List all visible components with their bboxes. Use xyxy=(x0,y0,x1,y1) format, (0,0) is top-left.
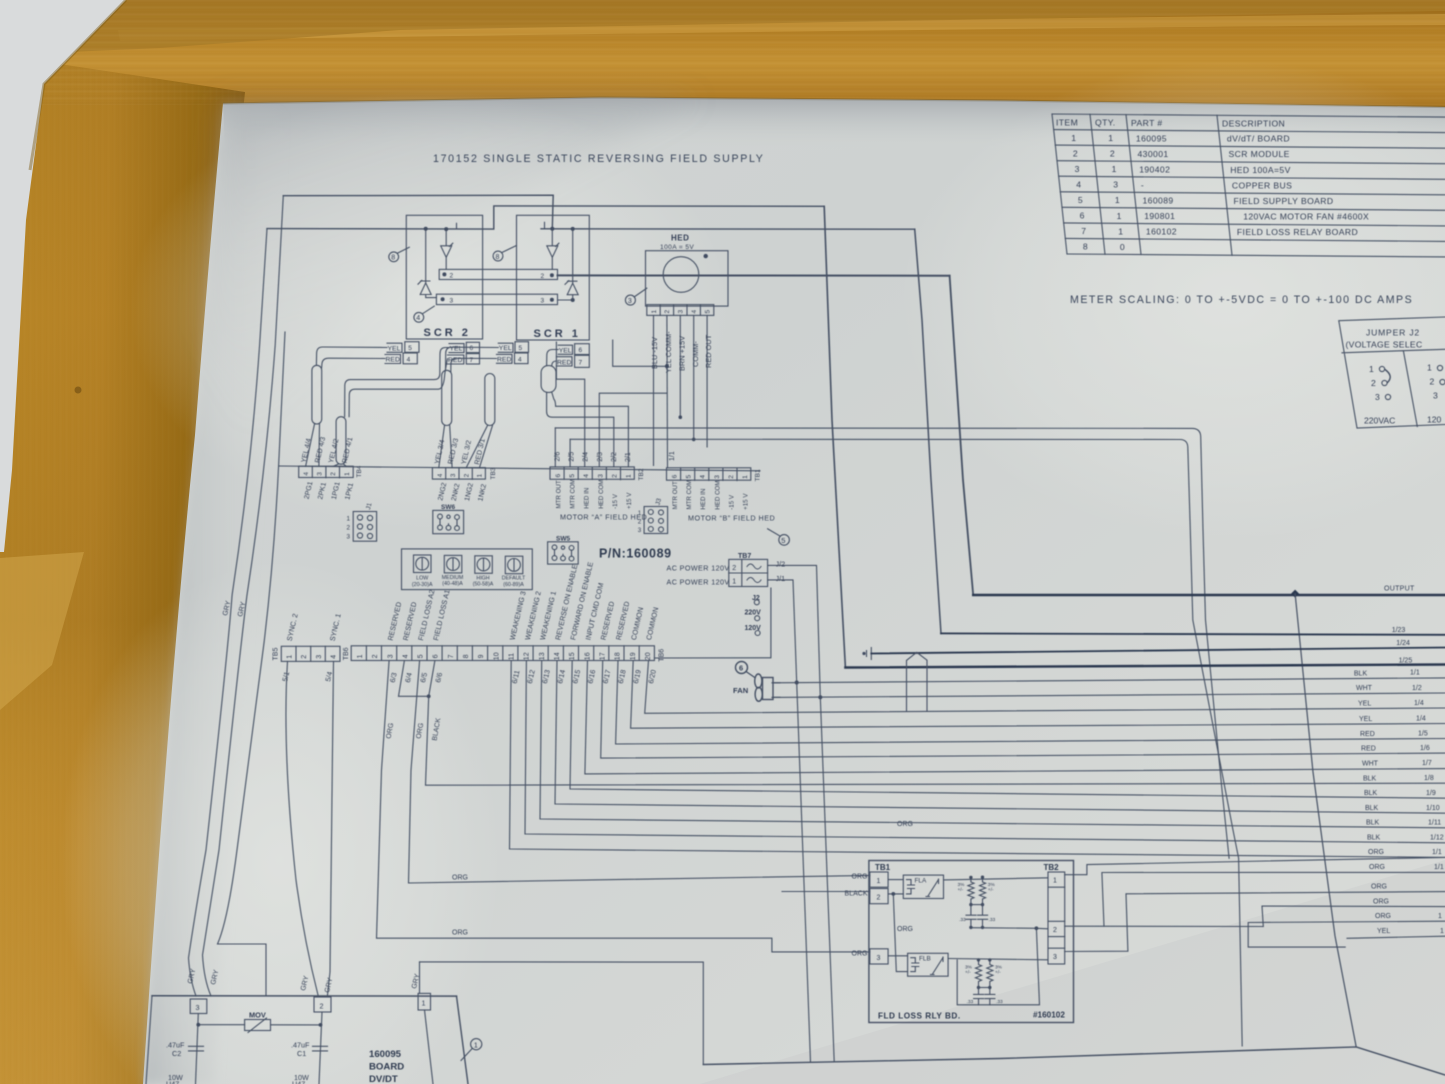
svg-text:5: 5 xyxy=(408,345,412,352)
SCR module Q2 box xyxy=(406,215,482,339)
svg-text:3: 3 xyxy=(628,298,632,305)
labels below TB2 xyxy=(556,479,634,509)
svg-text:RED: RED xyxy=(497,356,511,363)
wire FLB to FLD TB2-3 xyxy=(948,959,1048,960)
svg-text:FIELD LOSS RELAY BOARD: FIELD LOSS RELAY BOARD xyxy=(1237,227,1358,237)
svg-text:6: 6 xyxy=(1080,211,1085,221)
svg-text:ORG: ORG xyxy=(1368,849,1384,856)
white sheet behind wood at far left xyxy=(0,0,126,552)
labels HED leads xyxy=(650,331,713,373)
rail L3 via terminal line corner xyxy=(218,332,286,996)
svg-text:120VAC MOTOR FAN #4600X: 120VAC MOTOR FAN #4600X xyxy=(1243,211,1369,221)
svg-text:ORG: ORG xyxy=(1375,913,1391,920)
wire bottom rail 2 xyxy=(703,1047,1445,1075)
copper bus bar 3 xyxy=(436,294,557,304)
terminal strip TB1 xyxy=(667,468,751,480)
svg-text:1/1: 1/1 xyxy=(1434,864,1444,871)
svg-text:DV/DT: DV/DT xyxy=(369,1074,398,1084)
svg-text:2: 2 xyxy=(301,655,308,659)
svg-text:BLU -15V: BLU -15V xyxy=(650,337,659,369)
svg-text:TB6: TB6 xyxy=(659,649,666,662)
svg-text:11: 11 xyxy=(509,653,516,660)
node 1-24 left dot xyxy=(862,652,865,655)
wire bus vertical to OUTPUT xyxy=(950,276,974,595)
FLD TB1 terminal 1 xyxy=(870,872,888,887)
svg-text:TB6: TB6 xyxy=(343,647,350,660)
svg-text:RED: RED xyxy=(1361,745,1376,752)
svg-text:190402: 190402 xyxy=(1139,165,1170,175)
svg-text:WHT: WHT xyxy=(1362,760,1379,767)
SCR1 gate terminal RED 7 xyxy=(575,355,590,367)
svg-text:2: 2 xyxy=(1430,377,1435,387)
svg-text:COMM-: COMM- xyxy=(691,341,700,367)
svg-text:BLK: BLK xyxy=(1367,835,1381,842)
wire bottom rail 1 xyxy=(152,995,457,997)
svg-text:1/12: 1/12 xyxy=(1430,834,1444,841)
svg-text:8: 8 xyxy=(1083,242,1088,252)
wire row YEL 936 xyxy=(1347,936,1445,938)
node J/1 dot xyxy=(795,681,799,685)
svg-text:8: 8 xyxy=(496,254,500,261)
capacitor C1 xyxy=(313,1046,328,1051)
ref circled 6 xyxy=(736,662,748,674)
svg-text:J/2: J/2 xyxy=(776,560,786,569)
svg-text:3: 3 xyxy=(678,310,685,314)
svg-text:MOV: MOV xyxy=(249,1011,266,1020)
svg-text:3: 3 xyxy=(877,955,881,962)
svg-text:BLK: BLK xyxy=(1365,805,1379,812)
node HED dot xyxy=(704,254,708,258)
twisted pair tent xyxy=(907,652,928,711)
svg-text:AC POWER 120V: AC POWER 120V xyxy=(667,578,730,587)
wire HA corner into TB2-6 xyxy=(554,428,556,467)
wire J/2 to right xyxy=(768,565,821,697)
wire 6/13 to row xyxy=(540,661,1445,828)
svg-text:1/23: 1/23 xyxy=(1392,627,1406,634)
svg-text:1: 1 xyxy=(1115,195,1120,205)
svg-text:.33: .33 xyxy=(967,999,974,1005)
svg-text:13: 13 xyxy=(539,652,546,660)
wire TB1-2 to FLA and FLB xyxy=(888,894,908,972)
shadow cast by wood edge on paper top xyxy=(223,98,1445,153)
jumper circles xyxy=(1379,366,1384,371)
labels below TB4 xyxy=(304,481,355,501)
svg-text:1: 1 xyxy=(1071,133,1076,143)
svg-text:1: 1 xyxy=(626,474,633,478)
node TB1-2 dot xyxy=(891,892,895,896)
svg-text:QTY.: QTY. xyxy=(1095,118,1116,128)
wire hose B to TB4 xyxy=(333,464,346,466)
svg-text:1/6: 1/6 xyxy=(1420,745,1430,752)
wire SCR2 right gates to low horizontals xyxy=(345,348,449,417)
svg-text:+/-: +/- xyxy=(958,887,964,893)
svg-text:MOTOR “A” FIELD HED: MOTOR “A” FIELD HED xyxy=(560,513,647,522)
SCR2 gate terminal RED 7 xyxy=(466,354,479,364)
svg-text:5: 5 xyxy=(569,474,576,478)
hose C sleeve xyxy=(442,370,452,425)
svg-text:SW6: SW6 xyxy=(441,504,455,511)
node SCR1 dot2 xyxy=(571,227,575,231)
svg-text:JUMPER J2: JUMPER J2 xyxy=(1366,328,1420,338)
svg-text:160102: 160102 xyxy=(1146,227,1177,237)
wire SCR1 right gates into hose E xyxy=(547,350,559,366)
svg-text:SCR MODULE: SCR MODULE xyxy=(1229,149,1290,159)
svg-text:2: 2 xyxy=(372,654,379,658)
svg-text:15: 15 xyxy=(569,652,576,660)
left wood region xyxy=(0,55,245,1084)
wire 1-24 xyxy=(871,648,1445,654)
hose E sleeve xyxy=(541,366,556,393)
svg-text:1/8: 1/8 xyxy=(1424,775,1434,782)
terminal strip TB3 xyxy=(432,468,485,480)
svg-text:1/5: 1/5 xyxy=(1418,730,1428,737)
HED circle xyxy=(663,257,699,293)
svg-text:+/-: +/- xyxy=(988,887,994,893)
svg-text:3: 3 xyxy=(1433,391,1438,401)
svg-text:17: 17 xyxy=(599,652,606,660)
wire 6/4 jog to 6/6 xyxy=(399,661,429,697)
terminal strip TB5 xyxy=(281,646,340,661)
svg-text:3: 3 xyxy=(1075,164,1080,174)
svg-text:ORG: ORG xyxy=(852,951,868,958)
wire BLACK into TB1-2 xyxy=(782,891,870,893)
svg-text:3: 3 xyxy=(541,298,545,305)
svg-text:2: 2 xyxy=(1110,149,1115,159)
svg-text:5: 5 xyxy=(1078,195,1083,205)
svg-text:(60-89)A: (60-89)A xyxy=(503,582,524,588)
svg-text:160095: 160095 xyxy=(1136,133,1167,143)
wire cap rail to TB2-2 xyxy=(971,928,1048,929)
svg-text:FLD LOSS RLY BD.: FLD LOSS RLY BD. xyxy=(878,1012,961,1021)
svg-text:(50-58)A: (50-58)A xyxy=(473,582,494,588)
svg-text:ORG: ORG xyxy=(452,875,468,882)
capacitor CB1 xyxy=(974,988,984,1005)
node 6/4-6/6 dot xyxy=(427,694,431,698)
svg-text:4: 4 xyxy=(700,475,707,479)
wire box2 lead down xyxy=(319,1012,322,1084)
svg-text:3: 3 xyxy=(1113,180,1118,190)
svg-text:6: 6 xyxy=(739,664,743,673)
wire 6/6 BLACK to row 1-8 xyxy=(426,661,1445,786)
wire line HB xyxy=(570,439,1242,1046)
resistor RB1 xyxy=(976,960,982,988)
wire HED lead BRN xyxy=(679,315,681,417)
wire TB2-2 down to FLB rail xyxy=(957,928,1039,1005)
wire GRY riser into box1 xyxy=(419,962,421,994)
labels resistor caps xyxy=(958,882,1004,1005)
connector J1 xyxy=(353,512,376,542)
wire FLD TB2-1 to row 857 xyxy=(1065,857,1445,874)
svg-text:3: 3 xyxy=(638,527,642,534)
svg-text:14: 14 xyxy=(554,652,561,660)
svg-text:3: 3 xyxy=(450,297,454,304)
svg-text:RED: RED xyxy=(1360,731,1375,738)
wire row ORG 921 xyxy=(1248,921,1445,947)
wire W2 dot-row SCR2 xyxy=(267,206,824,229)
svg-text:+/-: +/- xyxy=(995,970,1001,976)
svg-text:+15 V: +15 V xyxy=(743,493,750,510)
svg-text:1/24: 1/24 xyxy=(1396,640,1410,647)
wire 6/20 to row xyxy=(645,661,1445,714)
terminal strip TB2 xyxy=(550,467,634,479)
bottom right subtle shading xyxy=(700,860,1445,1084)
terminal strip TB4 xyxy=(299,466,354,477)
svg-text:P/N:160089: P/N:160089 xyxy=(599,547,672,561)
wire main bus to HED xyxy=(558,274,950,276)
svg-text:BOARD: BOARD xyxy=(369,1062,404,1073)
svg-text:#160102: #160102 xyxy=(1033,1011,1065,1020)
svg-text:METER SCALING: 0 TO +-5VDC = 0: METER SCALING: 0 TO +-5VDC = 0 TO +-100 … xyxy=(1070,294,1413,306)
svg-text:1: 1 xyxy=(422,999,426,1008)
svg-text:8: 8 xyxy=(463,654,470,658)
svg-text:6: 6 xyxy=(579,347,583,354)
svg-text:6: 6 xyxy=(672,474,679,478)
wire J/1 to right xyxy=(768,580,797,683)
svg-text:YEL: YEL xyxy=(1359,716,1372,723)
relay FLB xyxy=(908,953,949,976)
SCR1 gate terminal RED 4 xyxy=(515,353,529,364)
svg-text:AC POWER 120V: AC POWER 120V xyxy=(667,564,730,573)
svg-text:MOTOR “B” FIELD HED: MOTOR “B” FIELD HED xyxy=(688,513,775,522)
wire TB1-3 to FLB xyxy=(888,955,908,957)
svg-text:2: 2 xyxy=(463,473,470,477)
svg-text:2: 2 xyxy=(732,565,736,572)
svg-text:10W: 10W xyxy=(168,1073,183,1082)
svg-text:1: 1 xyxy=(742,475,749,479)
svg-text:120V: 120V xyxy=(745,625,762,632)
svg-text:170152 SINGLE STATIC REVERS: 170152 SINGLE STATIC REVERSING FIELD SUP… xyxy=(433,153,765,165)
wire 6/15 to row xyxy=(570,661,1445,799)
node OUTPUT junction diamond xyxy=(1291,590,1299,598)
svg-text:.33: .33 xyxy=(959,917,966,923)
svg-text:220V: 220V xyxy=(745,610,762,617)
svg-text:1/10: 1/10 xyxy=(1426,805,1440,812)
svg-text:.33: .33 xyxy=(996,999,1003,1005)
svg-text:SCR 1: SCR 1 xyxy=(534,328,581,340)
wire hose C to TB3 xyxy=(439,426,452,468)
wire bus3 stub right xyxy=(558,299,574,301)
svg-text:MEDIUM: MEDIUM xyxy=(442,575,463,581)
svg-text:3: 3 xyxy=(1375,392,1380,402)
svg-text:LOW: LOW xyxy=(416,576,428,582)
svg-text:YEL: YEL xyxy=(388,346,401,353)
svg-text:PART #: PART # xyxy=(1131,118,1163,128)
wood notch highlight left xyxy=(0,552,84,710)
svg-text:1/11: 1/11 xyxy=(1428,819,1441,826)
svg-text:160089: 160089 xyxy=(1143,196,1174,206)
wire TB7 to TB6 strip xyxy=(654,588,771,658)
svg-text:12: 12 xyxy=(524,652,531,660)
svg-text:2: 2 xyxy=(1371,378,1376,388)
wire row 1-2 xyxy=(772,693,1445,697)
svg-text:0: 0 xyxy=(1120,242,1125,252)
svg-text:+/-: +/- xyxy=(965,970,971,976)
svg-text:YEL: YEL xyxy=(1377,928,1390,935)
wire 6/11 to row xyxy=(510,661,1445,858)
svg-text:FAN: FAN xyxy=(733,686,748,695)
svg-text:C2: C2 xyxy=(172,1049,181,1058)
wire HED lead YEL COMM to TB1-6 xyxy=(666,315,669,467)
FLD TB1 terminal 3 xyxy=(870,949,888,964)
svg-text:SCR 2: SCR 2 xyxy=(424,327,471,339)
svg-text:1/7: 1/7 xyxy=(1422,760,1432,767)
svg-text:ITEM: ITEM xyxy=(1056,117,1078,127)
svg-text:1: 1 xyxy=(1108,133,1113,143)
SCR1 gate terminal YEL 5 xyxy=(515,342,529,353)
svg-text:220VAC: 220VAC xyxy=(1364,416,1395,426)
svg-text:2: 2 xyxy=(611,474,618,478)
connector J3 xyxy=(644,507,668,534)
rotary switch panel xyxy=(402,549,533,590)
svg-text:TB4: TB4 xyxy=(356,465,363,477)
svg-text:1: 1 xyxy=(1118,226,1123,236)
svg-text:4: 4 xyxy=(691,310,698,314)
svg-text:MTR OUT: MTR OUT xyxy=(672,481,679,509)
left wood vertical shading overlay xyxy=(0,55,245,1084)
svg-text:6: 6 xyxy=(470,345,474,352)
svg-text:2: 2 xyxy=(728,475,735,479)
labels above TB4 xyxy=(301,436,355,464)
svg-text:2: 2 xyxy=(450,273,454,280)
svg-text:FIELD SUPPLY BOARD: FIELD SUPPLY BOARD xyxy=(1234,196,1334,206)
wire diamond down to rail1 xyxy=(1295,594,1356,1047)
svg-text:(VOLTAGE SELEC: (VOLTAGE SELEC xyxy=(1346,340,1423,350)
svg-text:7: 7 xyxy=(1081,226,1086,236)
resistor RA1 xyxy=(968,877,974,904)
fan motor M1 xyxy=(755,674,762,688)
svg-text:BLK: BLK xyxy=(1363,775,1377,782)
svg-text:1: 1 xyxy=(347,516,351,523)
corner shadow on paper xyxy=(203,98,700,421)
wire TB2-4 feed xyxy=(556,342,584,467)
hose B sleeve xyxy=(336,417,346,465)
svg-text:HED IN: HED IN xyxy=(584,488,591,509)
wire rail1 right end down xyxy=(457,996,469,1084)
diode SCR2 left xyxy=(418,229,436,298)
wire L-jog SCR1 bottom to YELCOMM xyxy=(613,340,667,366)
terminal line long xyxy=(279,466,760,471)
svg-text:430001: 430001 xyxy=(1138,149,1169,159)
node SCR1 pin1 tick xyxy=(544,222,546,229)
svg-text:1: 1 xyxy=(477,474,484,478)
SCR module Q1 box xyxy=(517,215,590,340)
svg-text:ORG: ORG xyxy=(1371,883,1387,890)
current sensor HED box xyxy=(646,251,729,306)
relay FLA xyxy=(903,875,943,898)
svg-text:RED: RED xyxy=(386,357,400,364)
node SCR2 pin1 tick xyxy=(456,223,458,229)
ref circled 4 xyxy=(414,312,424,322)
capacitor CA2 xyxy=(978,905,988,928)
rotary dial DEFAULT xyxy=(505,556,523,574)
wire FLD TB2-3 to row xyxy=(1065,892,1445,952)
svg-text:FLA: FLA xyxy=(915,877,927,884)
dark mark on wood xyxy=(75,387,82,394)
text 160095 BOARD DV/DT xyxy=(369,1049,404,1084)
svg-text:6: 6 xyxy=(433,654,440,658)
node J/2 dot xyxy=(818,695,822,699)
wire 6/17 to row xyxy=(601,661,1445,759)
svg-text:4: 4 xyxy=(518,356,522,363)
svg-text:dV/dT/ BOARD: dV/dT/ BOARD xyxy=(1227,134,1290,144)
svg-text:3: 3 xyxy=(387,654,394,658)
shadow along paper left edge xyxy=(143,104,287,1084)
wire 6/12 to row xyxy=(525,661,1445,843)
connector SW6 xyxy=(433,510,464,533)
svg-text:4: 4 xyxy=(331,655,338,659)
diode SCR1 top xyxy=(547,229,559,270)
wire 6/14 to row xyxy=(555,661,1445,814)
wire J/1 continues down xyxy=(797,683,811,1063)
SCR2 gate terminal RED 4 xyxy=(403,353,417,364)
capacitor CA1 xyxy=(966,905,976,928)
svg-text:DESCRIPTION: DESCRIPTION xyxy=(1222,119,1285,129)
svg-text:1/1: 1/1 xyxy=(1432,849,1442,856)
svg-text:ORG: ORG xyxy=(1373,898,1389,905)
svg-text:5: 5 xyxy=(519,345,523,352)
wire rail1 left end down xyxy=(146,996,152,1084)
svg-text:ORG: ORG xyxy=(452,930,468,937)
svg-text:(40-48)A: (40-48)A xyxy=(442,581,463,587)
svg-text:5: 5 xyxy=(686,475,693,479)
ref circled 3 xyxy=(625,295,635,305)
svg-text:2: 2 xyxy=(347,525,351,532)
svg-text:C1: C1 xyxy=(297,1049,306,1058)
svg-text:1/9: 1/9 xyxy=(1426,790,1436,797)
svg-text:18: 18 xyxy=(615,652,622,660)
svg-text:3: 3 xyxy=(1053,954,1057,961)
svg-text:1: 1 xyxy=(357,654,364,658)
svg-text:3: 3 xyxy=(597,474,604,478)
wood grain overlays xyxy=(0,0,1445,105)
svg-text:7: 7 xyxy=(448,654,455,658)
svg-text:TB1: TB1 xyxy=(875,863,891,872)
wire W3 vertical to 1-23 line xyxy=(915,229,941,633)
svg-text:2: 2 xyxy=(320,1002,324,1011)
svg-text:190801: 190801 xyxy=(1144,211,1175,221)
svg-text:YEL: YEL xyxy=(1358,700,1371,707)
svg-text:2/1: 2/1 xyxy=(625,452,632,462)
svg-text:SW5: SW5 xyxy=(556,536,570,543)
svg-text:BLK: BLK xyxy=(1366,820,1380,827)
diode SCR2 top xyxy=(441,229,453,269)
svg-text:10W: 10W xyxy=(294,1073,309,1082)
svg-text:1: 1 xyxy=(474,1040,478,1049)
svg-text:3: 3 xyxy=(714,475,721,479)
svg-text:100A = 5V: 100A = 5V xyxy=(660,244,694,251)
labels below TB1 xyxy=(672,480,750,510)
wood edge dark line xyxy=(223,98,1445,108)
wire box3 lead down xyxy=(196,1014,199,1084)
svg-text:2/4: 2/4 xyxy=(583,452,590,462)
svg-text:1: 1 xyxy=(344,472,351,476)
svg-text:1: 1 xyxy=(1112,164,1117,174)
svg-text:4: 4 xyxy=(303,472,310,476)
rotary dial HIGH xyxy=(475,556,493,574)
svg-text:HIGH: HIGH xyxy=(476,575,489,581)
terminal strip TB6 xyxy=(351,646,654,661)
svg-text:BRN +15V: BRN +15V xyxy=(678,336,687,371)
top molding crest highlight xyxy=(118,14,1445,41)
ref circled 8 (SCR1) xyxy=(493,251,503,261)
ground tick 1-24 xyxy=(867,648,872,660)
node SCR2 dot1 xyxy=(424,227,428,231)
svg-text:1/4: 1/4 xyxy=(1414,700,1424,707)
wire hose A to TB4 terminals xyxy=(306,424,320,466)
wire FLD TB2-2 to rows xyxy=(1065,872,1445,926)
svg-text:4: 4 xyxy=(416,315,420,322)
svg-text:8: 8 xyxy=(391,255,395,262)
